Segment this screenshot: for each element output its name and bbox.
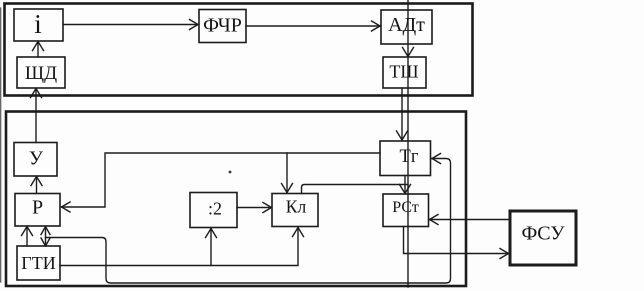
outer frame lower unit	[6, 112, 466, 287]
block ФЧР	[199, 10, 246, 43]
svg-text:ГТИ: ГТИ	[21, 253, 55, 273]
wire ФЧР to АДт	[246, 25, 380, 27]
svg-text:ТШ: ТШ	[389, 62, 418, 82]
wire Кл top hook to long line	[302, 185, 409, 194]
block РСт	[383, 194, 429, 227]
wire ФСУ to РСт	[430, 219, 511, 221]
outer frame upper unit	[5, 4, 473, 96]
wire ГТИ to :2 and Кл bottoms	[60, 228, 298, 266]
block Кл	[272, 194, 318, 227]
wire ГТИ Р double arrow	[45, 227, 47, 247]
svg-text:АДт: АДт	[388, 14, 425, 36]
block АДт	[381, 10, 432, 44]
block У	[14, 143, 57, 177]
wire junction to Тг feedback loop	[46, 159, 451, 284]
branch arrow into Кл top	[286, 153, 288, 193]
wire i to ФЧР	[63, 24, 198, 26]
svg-text:ЩД: ЩД	[25, 63, 57, 84]
arrow into ТШ on long line	[403, 48, 414, 57]
svg-text:У: У	[29, 148, 44, 170]
wire Тг output to Р and Кл	[62, 153, 381, 207]
block ФСУ	[510, 211, 576, 265]
block i	[14, 9, 63, 41]
wire ЩД to i	[37, 42, 39, 58]
block :2	[190, 193, 237, 228]
wire Р to У	[36, 177, 38, 194]
svg-text:Тг: Тг	[400, 147, 419, 167]
svg-text:ФЧР: ФЧР	[203, 15, 242, 37]
svg-text:i: i	[34, 9, 42, 39]
svg-text:ФСУ: ФСУ	[521, 223, 565, 245]
block ТШ	[383, 57, 426, 88]
block ГТИ	[17, 246, 60, 280]
long vertical net line through АДт ТШ Тг РСт	[407, 0, 409, 287]
svg-text:Кл: Кл	[286, 197, 307, 217]
svg-text:РСт: РСт	[392, 199, 419, 216]
svg-text::2: :2	[208, 199, 222, 219]
wire РСт to ФСУ	[404, 227, 509, 254]
wire ТШ to Тг	[401, 88, 403, 140]
block Тг	[380, 141, 431, 176]
artifact dot	[229, 171, 232, 174]
svg-text:Р: Р	[32, 197, 43, 219]
scan artifact left edge	[0, 8, 2, 282]
wire У to ЩД	[35, 89, 37, 143]
wire ГТИ to Р left	[26, 227, 28, 247]
block Р	[15, 194, 60, 227]
block ЩД	[17, 57, 65, 88]
wire Тг to РСт	[404, 176, 406, 194]
wire :2 to Кл	[237, 207, 272, 209]
